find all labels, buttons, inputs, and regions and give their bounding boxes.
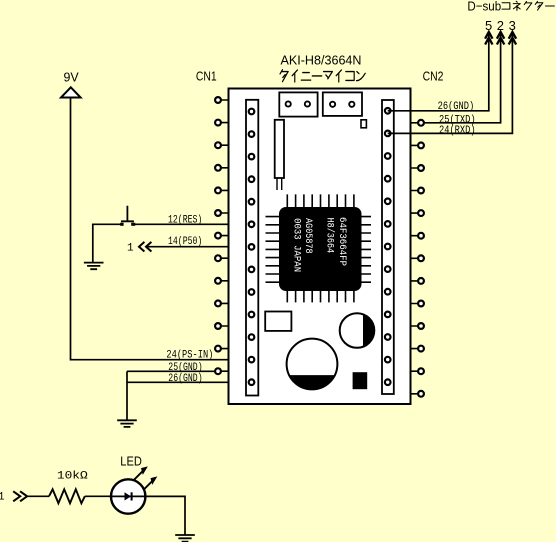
svg-text:1: 1	[127, 242, 134, 254]
wire reset row right segment to CN1 pin 12	[133, 223, 252, 225]
label D-sub katakana konekutaa	[502, 1, 554, 10]
connector J2 (top-right 2pin box)	[323, 92, 362, 116]
pushbutton switch SW1	[120, 206, 135, 226]
connector CN1 outer pin stubs	[221, 100, 229, 371]
wire resistor to LED	[85, 495, 111, 497]
arrow chevrons P50 left	[139, 242, 151, 252]
crystal X1	[275, 120, 284, 178]
wire 24(RXD) to D-sub 3	[388, 33, 513, 134]
wire through LED to ground	[111, 496, 185, 535]
svg-text:LED: LED	[120, 453, 142, 468]
wire 26(GND) right to D-sub 5	[388, 33, 489, 111]
LED D1 emission arrows	[134, 467, 157, 490]
wire 9V rail down and right to 24(PS-IN)	[71, 99, 252, 360]
svg-text:24(RXD): 24(RXD)	[439, 125, 476, 137]
svg-text:24(PS-IN): 24(PS-IN)	[166, 350, 213, 362]
svg-text:0033 JAPAN: 0033 JAPAN	[291, 218, 302, 272]
wire 25(TXD) to D-sub 2	[424, 33, 501, 123]
label tiny-maikon (katakana)	[280, 70, 365, 82]
svg-text:D−sub: D−sub	[467, 0, 501, 13]
LED D1 diode symbol	[125, 492, 132, 500]
capacitor C2 (small electrolytic, top view)	[340, 313, 375, 348]
wire gnd leg left	[126, 371, 128, 420]
header CN2 inner hole circles	[385, 108, 391, 385]
wire input to resistor	[27, 495, 49, 497]
arrow up pin2	[497, 32, 504, 45]
power symbol 9V triangle	[61, 87, 81, 97]
component black rect (bottom right on board)	[353, 372, 368, 389]
svg-text:26(GND): 26(GND)	[438, 101, 475, 113]
connector J1 (top-left 2pin box)	[279, 92, 317, 116]
arrow up pin3	[509, 32, 516, 45]
wire reset row left segment	[93, 223, 122, 225]
wire 26(GND)	[127, 381, 252, 383]
IC U1 bottom pins	[287, 290, 354, 302]
board AKI-H8/3664N outline	[229, 89, 411, 405]
IC U1 body H8/3664	[279, 207, 362, 291]
svg-text:CN1: CN1	[196, 69, 217, 84]
svg-text:CN2: CN2	[423, 69, 444, 84]
header CN1 inner strip	[246, 100, 258, 396]
wire reset to ground	[92, 224, 94, 263]
component white square (bottom-left on board)	[265, 312, 291, 331]
ground (reset)	[84, 263, 104, 270]
small component (top small rect)	[361, 120, 366, 128]
connector CN2 outer pin circles	[418, 120, 424, 397]
arrow up pin5	[485, 32, 492, 45]
IC U1 right pins	[361, 217, 372, 283]
capacitor C1 (big electrolytic, top view)	[287, 339, 338, 390]
svg-text:12(RES): 12(RES)	[168, 215, 202, 227]
ground (left GND)	[117, 420, 137, 427]
IC U1 top pins	[287, 194, 354, 208]
svg-text:AKI-H8/3664N: AKI-H8/3664N	[281, 52, 362, 67]
wire 25(GND)	[127, 370, 215, 372]
resistor R1 10k	[49, 489, 85, 503]
header CN1 inner hole circles	[249, 109, 255, 385]
connector CN2 outer pin stubs	[411, 123, 419, 394]
svg-text:10kΩ: 10kΩ	[57, 470, 88, 482]
ground (LED)	[175, 535, 195, 542]
svg-text:AG05878: AG05878	[302, 218, 313, 254]
svg-text:9V: 9V	[64, 70, 80, 85]
connector CN1 outer pin circles	[215, 97, 221, 374]
arrow chevrons input right	[13, 491, 27, 501]
LED D1 body	[111, 479, 145, 513]
svg-text:1: 1	[0, 492, 5, 504]
header CN2 inner strip	[382, 100, 394, 394]
IC U1 marking text	[291, 217, 348, 272]
IC U1 left pins	[266, 217, 281, 283]
svg-text:64F3664FP: 64F3664FP	[336, 217, 347, 266]
wire 14(P50)	[147, 246, 252, 248]
svg-text:H8/3664: H8/3664	[324, 218, 336, 254]
